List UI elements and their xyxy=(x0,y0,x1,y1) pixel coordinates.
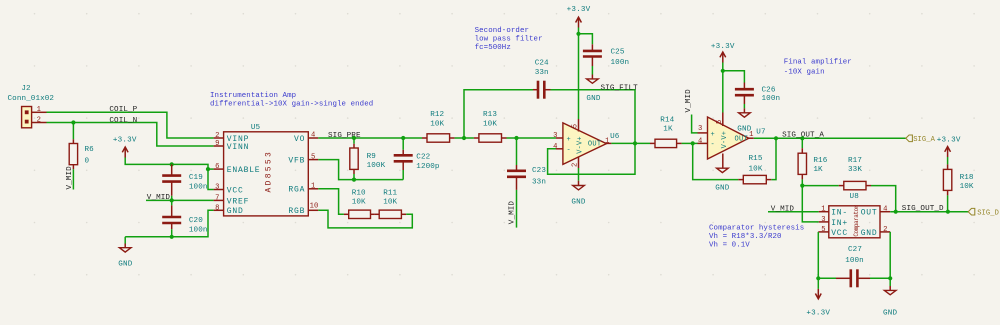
junction U6 output xyxy=(633,141,637,145)
junction +3.3V C25 xyxy=(576,32,580,36)
wire comparator out xyxy=(890,211,968,213)
svg-text:C22: C22 xyxy=(416,154,430,162)
ground GND (C27) xyxy=(883,278,898,317)
capacitor C25 xyxy=(579,34,630,67)
U5 pin numbers xyxy=(215,132,318,213)
power +3.3V (filter) xyxy=(567,6,591,34)
junction U7 out feedback xyxy=(774,136,778,140)
wire COIL_N xyxy=(47,123,214,147)
svg-text:V_MID: V_MID xyxy=(771,205,795,213)
resistor R6 xyxy=(69,139,94,169)
comparator U8 xyxy=(829,193,880,238)
junction C20 bottom xyxy=(170,235,174,239)
svg-text:C27: C27 xyxy=(848,246,862,254)
ground GND (C25) xyxy=(586,66,601,103)
U7 supply pin 5 xyxy=(716,113,724,127)
wire C23 to V_MID xyxy=(516,190,518,228)
svg-text:V_MID: V_MID xyxy=(147,194,171,202)
svg-text:R16: R16 xyxy=(813,157,827,165)
svg-text:1: 1 xyxy=(37,106,41,114)
hierarchical label SIG_A xyxy=(906,135,936,144)
svg-text:100n: 100n xyxy=(189,226,208,234)
svg-text:10K: 10K xyxy=(430,120,444,128)
ground GND (U7) xyxy=(715,168,730,192)
junction C27 right xyxy=(888,276,892,280)
svg-text:SIG_OUT_D: SIG_OUT_D xyxy=(902,205,944,213)
svg-text:Second-order: Second-order xyxy=(475,27,529,35)
svg-text:-: - xyxy=(711,141,715,149)
wire U6 minus feedback xyxy=(548,143,635,174)
U8 left pins xyxy=(818,212,829,232)
resistor R17 xyxy=(802,157,871,190)
wire U7 out to SIG_A xyxy=(754,137,906,139)
svg-text:100n: 100n xyxy=(845,257,864,265)
ground GND (C26) xyxy=(737,104,752,133)
junction U7 supply xyxy=(721,69,725,73)
svg-text:5: 5 xyxy=(311,153,315,161)
svg-text:V-V+: V-V+ xyxy=(721,131,729,149)
capacitor C26 xyxy=(723,71,780,104)
svg-text:0: 0 xyxy=(85,157,90,165)
wire R14 to U7 minus xyxy=(682,142,698,144)
wire divider to IN+ xyxy=(802,186,819,222)
junction C27 left xyxy=(816,276,820,280)
resistor R12 xyxy=(422,111,455,142)
U6 input pins xyxy=(553,132,563,151)
svg-text:V_MID: V_MID xyxy=(509,201,517,225)
wire R15 to output xyxy=(771,138,776,179)
wire GND pin down xyxy=(889,232,891,278)
svg-text:R13: R13 xyxy=(483,111,497,119)
svg-text:C20: C20 xyxy=(189,217,203,225)
svg-text:Vh = 0.1V: Vh = 0.1V xyxy=(709,242,750,250)
svg-text:GND: GND xyxy=(861,229,878,238)
svg-text:+3.3V: +3.3V xyxy=(113,136,137,144)
svg-text:GND: GND xyxy=(571,199,586,207)
svg-text:Conn_01x02: Conn_01x02 xyxy=(8,95,55,103)
svg-text:R10: R10 xyxy=(352,190,366,198)
junction V_MID row xyxy=(170,198,174,202)
power +3.3V (U7) xyxy=(711,43,735,71)
capacitor C23 xyxy=(507,138,546,190)
connector J2 xyxy=(8,85,55,128)
wire R13 to U6 xyxy=(507,137,557,139)
svg-text:OUT: OUT xyxy=(588,141,602,149)
svg-text:C26: C26 xyxy=(762,87,776,95)
svg-text:10K: 10K xyxy=(749,166,763,174)
junction C22 top xyxy=(401,136,405,140)
capacitor C22 xyxy=(394,138,440,180)
wire RGB loop xyxy=(318,210,412,228)
resistor R15 xyxy=(738,155,771,184)
svg-text:IN-: IN- xyxy=(831,209,848,218)
junction R9 bottom xyxy=(352,178,356,182)
resistor R11 xyxy=(375,190,406,219)
wire RGA to R10 xyxy=(318,189,344,215)
U5 right pins xyxy=(308,138,318,210)
U7 input pins xyxy=(698,125,708,146)
svg-text:+3.3V: +3.3V xyxy=(567,6,591,14)
svg-text:U7: U7 xyxy=(756,129,765,137)
wire V_MID to U7 plus xyxy=(692,115,698,133)
junction R9 top xyxy=(352,136,356,140)
svg-text:3: 3 xyxy=(215,184,219,192)
svg-text:100n: 100n xyxy=(762,95,781,103)
svg-text:10: 10 xyxy=(310,203,319,211)
svg-text:RGB: RGB xyxy=(288,207,305,216)
svg-text:R9: R9 xyxy=(367,153,377,161)
svg-text:J2: J2 xyxy=(21,85,31,93)
svg-text:GND: GND xyxy=(227,207,244,216)
svg-text:+: + xyxy=(711,131,715,139)
svg-text:OUT: OUT xyxy=(735,136,749,144)
svg-text:4: 4 xyxy=(698,138,702,146)
U7 output pin xyxy=(749,131,754,139)
U6 supply pin 2 xyxy=(572,157,580,169)
junction R16/R17 xyxy=(800,184,804,188)
svg-text:2: 2 xyxy=(883,226,887,234)
svg-text:Comparator: Comparator xyxy=(853,204,860,236)
note second-order filter xyxy=(475,27,543,52)
svg-text:V_MID: V_MID xyxy=(685,89,693,113)
ground GND (U6) xyxy=(571,168,586,207)
svg-text:R11: R11 xyxy=(383,190,397,198)
svg-text:differential->10X gain->single: differential->10X gain->single ended xyxy=(210,101,373,109)
wire SIG_PRE main row xyxy=(318,137,422,139)
svg-text:33n: 33n xyxy=(532,178,546,186)
power +3.3V (C27, down) xyxy=(806,278,830,317)
op-amp U7 xyxy=(708,117,766,159)
svg-text:R6: R6 xyxy=(85,146,95,154)
resistor R16 xyxy=(798,138,828,185)
svg-text:GND: GND xyxy=(883,309,898,317)
svg-text:R15: R15 xyxy=(749,155,763,163)
wire ENABLE stub xyxy=(208,168,214,170)
wire VCC down xyxy=(817,232,819,278)
power +3.3V (R18) xyxy=(937,136,961,164)
junction R18 out xyxy=(946,210,950,214)
svg-text:2: 2 xyxy=(215,132,219,140)
svg-text:+: + xyxy=(567,136,571,144)
U8 right pins xyxy=(880,212,890,232)
svg-text:V_MID: V_MID xyxy=(66,166,74,190)
svg-text:33K: 33K xyxy=(848,166,862,174)
svg-text:V-V+: V-V+ xyxy=(576,136,584,154)
svg-text:1: 1 xyxy=(821,206,825,214)
svg-text:33n: 33n xyxy=(535,69,549,77)
svg-text:IN+: IN+ xyxy=(831,219,848,228)
wire V_MID row to VREF xyxy=(146,199,214,201)
svg-text:3: 3 xyxy=(553,132,557,140)
svg-text:SIG_FILT: SIG_FILT xyxy=(601,84,639,92)
wire U7 supply xyxy=(722,71,724,113)
svg-text:VREF: VREF xyxy=(227,197,249,206)
svg-text:5: 5 xyxy=(716,120,724,124)
svg-text:COIL_N: COIL_N xyxy=(109,117,137,125)
svg-text:+3.3V: +3.3V xyxy=(806,309,830,317)
U5 pin names xyxy=(227,135,305,216)
svg-text:+3.3V: +3.3V xyxy=(711,43,735,51)
svg-text:GND: GND xyxy=(586,95,601,103)
wire R12-R13 xyxy=(455,137,474,139)
svg-text:1K: 1K xyxy=(663,126,673,134)
svg-text:+3.3V: +3.3V xyxy=(937,136,961,144)
wire C19 to V_MID row xyxy=(171,196,173,201)
wire U6 out to R14 xyxy=(611,142,650,144)
svg-text:1K: 1K xyxy=(813,166,823,174)
svg-text:100K: 100K xyxy=(367,162,386,170)
svg-text:fc=500Hz: fc=500Hz xyxy=(475,44,511,52)
svg-text:C23: C23 xyxy=(532,167,546,175)
svg-text:4: 4 xyxy=(553,143,557,151)
power +3.3V (enable rail) xyxy=(113,136,137,157)
svg-text:R14: R14 xyxy=(660,117,674,125)
svg-text:R18: R18 xyxy=(960,174,974,182)
resistor R18 xyxy=(943,164,974,195)
svg-text:C25: C25 xyxy=(611,48,625,56)
svg-text:VINN: VINN xyxy=(227,143,249,152)
svg-text:10K: 10K xyxy=(352,199,366,207)
svg-text:OUT: OUT xyxy=(861,209,878,218)
resistor R13 xyxy=(474,111,507,142)
U5 left pins xyxy=(214,138,224,210)
svg-text:100n: 100n xyxy=(611,59,630,67)
svg-text:U6: U6 xyxy=(610,133,620,141)
svg-text:GND: GND xyxy=(737,125,752,133)
svg-text:3: 3 xyxy=(821,216,825,224)
svg-text:SIG_D: SIG_D xyxy=(977,210,999,218)
wire R6 to V_MID xyxy=(72,169,74,189)
svg-text:6: 6 xyxy=(215,163,219,171)
svg-text:SIG_PRE: SIG_PRE xyxy=(328,132,361,140)
U7 supply pin 2 xyxy=(722,154,724,169)
capacitor C20 xyxy=(162,201,207,235)
svg-text:Comparator hysteresis: Comparator hysteresis xyxy=(709,225,804,233)
svg-text:C24: C24 xyxy=(535,60,549,68)
svg-text:5: 5 xyxy=(572,124,580,128)
junction C23 top xyxy=(514,136,518,140)
svg-text:U5: U5 xyxy=(251,124,261,132)
U6 supply pin 5 xyxy=(572,119,580,132)
svg-text:Vh = R18*3.3/R20: Vh = R18*3.3/R20 xyxy=(709,233,782,241)
resistor R10 xyxy=(344,190,375,219)
note comparator hysteresis xyxy=(709,225,804,250)
junction R16 top xyxy=(800,136,804,140)
wire U7 feedback xyxy=(693,143,739,179)
svg-text:VO: VO xyxy=(294,135,305,144)
svg-text:4: 4 xyxy=(311,132,315,140)
wire R17 to comparator out xyxy=(871,186,896,212)
note instrumentation amp xyxy=(210,92,373,108)
note final amplifier xyxy=(784,59,852,77)
wire R6 top xyxy=(72,123,74,140)
svg-text:4: 4 xyxy=(883,206,887,214)
svg-text:U8: U8 xyxy=(850,193,860,201)
svg-text:VCC: VCC xyxy=(831,229,848,238)
junction COIL_N / R6 xyxy=(71,120,75,124)
svg-text:-: - xyxy=(567,147,571,155)
svg-text:8: 8 xyxy=(215,204,219,212)
svg-text:GND: GND xyxy=(715,185,730,193)
svg-text:ENABLE: ENABLE xyxy=(227,166,261,175)
svg-text:C19: C19 xyxy=(189,174,203,182)
capacitor C27 xyxy=(818,246,890,287)
wire R18 to SIG_OUT_D xyxy=(947,195,949,211)
svg-text:2: 2 xyxy=(572,163,580,167)
svg-text:10K: 10K xyxy=(483,120,497,128)
svg-text:Final amplifier: Final amplifier xyxy=(784,59,852,67)
svg-text:5: 5 xyxy=(821,226,825,234)
svg-text:RGA: RGA xyxy=(288,186,305,195)
wire GND row / U5 GND pin xyxy=(125,210,213,237)
svg-text:VFB: VFB xyxy=(288,157,305,166)
hierarchical label SIG_D xyxy=(968,208,999,217)
svg-text:R12: R12 xyxy=(430,111,444,119)
svg-text:1: 1 xyxy=(311,183,315,191)
junction C19 top xyxy=(170,162,174,166)
svg-text:2: 2 xyxy=(37,116,41,124)
wire C20 to GND row xyxy=(171,229,173,237)
junction ENABLE xyxy=(206,167,210,171)
svg-text:10K: 10K xyxy=(960,183,974,191)
svg-text:9: 9 xyxy=(215,140,219,148)
junction C24 branch xyxy=(462,136,466,140)
resistor R9 xyxy=(350,138,386,180)
ground GND (left) xyxy=(118,237,133,268)
op-amp U6 xyxy=(563,123,620,164)
svg-text:10K: 10K xyxy=(383,199,397,207)
U8 pin numbers xyxy=(821,206,887,234)
capacitor C19 xyxy=(162,164,207,195)
svg-text:AD8553: AD8553 xyxy=(265,150,274,193)
resistor R14 xyxy=(650,117,682,148)
U8 pin names xyxy=(831,209,877,238)
svg-text:Instrumentation Amp: Instrumentation Amp xyxy=(210,92,296,100)
wire VFB feedback xyxy=(318,160,403,180)
svg-text:1: 1 xyxy=(605,137,609,145)
wire +3.3V to ENABLE/VCC xyxy=(125,158,213,190)
svg-text:low pass filter: low pass filter xyxy=(475,36,543,44)
capacitor C24 xyxy=(464,60,635,144)
wire COIL_P xyxy=(47,112,214,138)
svg-text:SIG_A: SIG_A xyxy=(913,136,935,144)
svg-text:R17: R17 xyxy=(848,157,862,165)
svg-text:7: 7 xyxy=(215,195,219,203)
svg-text:3: 3 xyxy=(698,125,702,133)
svg-text:VCC: VCC xyxy=(227,186,244,195)
junction R17 out xyxy=(894,210,898,214)
svg-text:100n: 100n xyxy=(189,183,208,191)
instrumentation amp U5 (AD8553) xyxy=(224,124,309,216)
U6 output pin xyxy=(605,137,611,145)
svg-text:COIL_P: COIL_P xyxy=(109,106,137,114)
wire V_MID to IN- xyxy=(768,211,819,213)
junction U7 minus xyxy=(691,141,695,145)
wire U6 supply xyxy=(578,34,580,119)
svg-text:-10X gain: -10X gain xyxy=(784,69,825,77)
svg-text:1200p: 1200p xyxy=(416,163,440,171)
svg-text:GND: GND xyxy=(118,260,133,268)
